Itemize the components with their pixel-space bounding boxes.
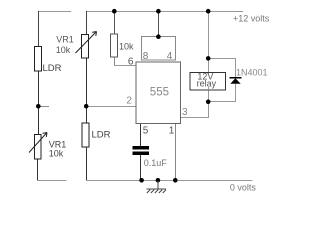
- wire LDR1 bottom to node A: [38, 71, 40, 107]
- wire pin 1 to 0V rail: [175, 123, 177, 181]
- wire bottom rail segment 1: [37, 180, 67, 182]
- wire pin 5 to capacitor: [140, 123, 142, 147]
- svg-text:1N4001: 1N4001: [236, 67, 268, 77]
- svg-text:0.1uF: 0.1uF: [144, 158, 168, 168]
- potentiometer VR1 (upper) arrow: [76, 32, 97, 54]
- wire top rail to pins 8-4 box: [158, 11, 160, 37]
- resistor R1 10k body: [111, 34, 118, 57]
- svg-text:+12 volts: +12 volts: [233, 14, 270, 24]
- svg-text:6: 6: [128, 57, 134, 68]
- wire bottom rail segment 2 (0V rail): [86, 180, 253, 182]
- potentiometer VR1 (lower) arrow: [29, 133, 47, 153]
- svg-text:3: 3: [182, 107, 188, 118]
- svg-text:10k: 10k: [49, 148, 64, 158]
- diode D1 cathode bar: [230, 77, 242, 78]
- node B junction dot: [84, 104, 89, 109]
- potentiometer VR1 (lower) body: [35, 135, 42, 160]
- node 0V dot at capacitor: [139, 178, 144, 183]
- node top rail dot at 555 supply: [156, 9, 161, 14]
- wire diode bottom return vertical: [235, 84, 237, 102]
- node 0V dot at ground: [156, 178, 161, 183]
- capacitor C1 top plate: [133, 146, 150, 149]
- svg-text:5: 5: [143, 126, 149, 137]
- wire diode bottom return horizontal: [208, 101, 236, 103]
- wire VR1a bottom to node B: [86, 58, 88, 123]
- wire top rail segment A: [38, 11, 71, 13]
- svg-text:8: 8: [143, 51, 149, 62]
- wire pin 6 horizontal: [114, 65, 136, 67]
- relay text backing: [196, 74, 219, 87]
- wire 10k resistor top drop: [114, 11, 116, 34]
- wire node B to pin 2: [86, 106, 136, 108]
- capacitor C1 bottom plate: [133, 152, 150, 155]
- potentiometer VR1 (upper) body: [82, 35, 89, 59]
- svg-text:555: 555: [150, 86, 169, 98]
- node dot on pins 8-4 box top: [156, 34, 161, 39]
- wire diode top branch vertical: [235, 58, 237, 78]
- wire relay branch through box: [208, 73, 210, 90]
- op-amp U1 555 timer box: [136, 62, 181, 124]
- svg-text:10k: 10k: [119, 42, 134, 52]
- svg-text:LDR: LDR: [92, 130, 111, 141]
- wire node A stub right: [38, 106, 49, 108]
- relay RLY1 box: [190, 73, 226, 91]
- wire relay branch vertical: [208, 11, 210, 102]
- svg-text:relay: relay: [197, 79, 217, 89]
- resistor LDR2: [82, 123, 89, 147]
- node 0V dot at pin 1: [173, 178, 178, 183]
- wire diode top branch horizontal: [208, 58, 236, 60]
- svg-text:0 volts: 0 volts: [230, 183, 257, 193]
- wire node A to VR1b top: [38, 106, 40, 135]
- wire top rail segment B (+12V rail): [86, 11, 243, 13]
- wire pin 3 output vertical: [208, 102, 210, 118]
- wire R1 bottom to pin 6 corner: [114, 57, 116, 66]
- wire capacitor to 0V rail: [140, 155, 142, 181]
- svg-text:LDR: LDR: [43, 63, 62, 74]
- node top rail dot at relay: [206, 9, 211, 14]
- node top rail dot at 10k: [112, 9, 117, 14]
- svg-text:10k: 10k: [56, 45, 71, 55]
- wire LDR1 top drop: [38, 11, 40, 47]
- wire LDR2 bottom to 0V rail: [86, 147, 88, 181]
- resistor LDR1: [35, 47, 42, 72]
- svg-text:4: 4: [167, 51, 173, 62]
- node dot relay bottom / diode return: [206, 100, 211, 105]
- wire VR1b bottom to 0V rail: [37, 159, 39, 181]
- svg-text:2: 2: [126, 95, 132, 106]
- node A junction dot: [36, 104, 41, 109]
- wire pin 3 output horizontal: [181, 117, 209, 119]
- pins 8-4 connection box: [142, 37, 176, 61]
- ground: [147, 180, 167, 193]
- svg-text:1: 1: [169, 126, 175, 137]
- wire VR1a top drop: [86, 11, 88, 35]
- svg-text:VR1: VR1: [56, 35, 74, 45]
- diode D1 triangle: [230, 78, 240, 84]
- node dot relay top / diode branch: [206, 56, 211, 61]
